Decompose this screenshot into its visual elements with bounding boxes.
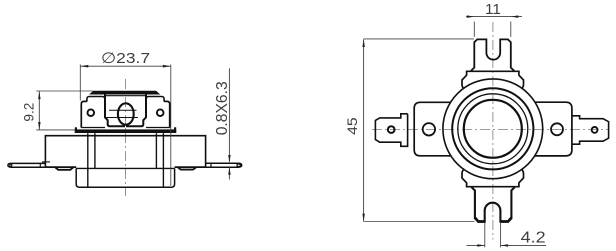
lug left hole [88,109,95,116]
bottom mounting bracket arm [472,187,514,222]
neck wall right inner [155,133,157,168]
left blade hole [388,126,395,133]
svg-text:9.2: 9.2 [22,103,37,122]
extension line right 11 [510,22,512,37]
cap top edge [76,167,174,169]
inner circle (cap face) [464,100,522,158]
extension line right Ø23.7 [170,65,172,186]
dimension line left 4.2 [467,244,485,246]
cap (aluminum cup) [76,168,174,187]
blade left hole [10,164,12,166]
blade right hole [237,164,240,167]
centerline vertical (right view) [492,22,494,240]
arrow right 11 [511,15,519,18]
neck wall left inner [94,133,96,168]
arrow left 11 [467,15,475,18]
body base stub left [75,127,77,133]
boss right [146,97,164,102]
oval cross line upper [109,109,137,111]
extension line top 9.2 [36,90,93,92]
right bracket plate [535,102,572,156]
dimension line 45 [363,39,365,221]
bent tab right under flange [178,167,197,170]
lug right hole [157,109,164,116]
extension line left 4.2 [484,223,486,248]
centerline horizontal (right view) [372,129,609,131]
central block wall right [126,94,146,126]
dimension line right 4.2 [501,244,546,246]
arrow right Ø23.7 [163,65,171,68]
bottom collar [462,169,524,187]
leader line 0.8X6.3 lower [228,168,230,180]
arrow top 45 [362,39,365,47]
blade right crimp tick [210,163,212,167]
extension line bottom 9.2 [36,129,75,131]
svg-text:∅23.7: ∅23.7 [101,50,150,67]
lug left bottom edge [81,127,105,129]
body base band [75,129,176,133]
recess top line [105,95,146,97]
central block wall left [105,94,125,126]
lug right bottom edge [146,127,170,129]
svg-text:4.2: 4.2 [521,230,546,247]
svg-text:11: 11 [485,2,501,18]
svg-text:0.8X6.3: 0.8X6.3 [214,81,231,135]
outer circle (cap flange) [443,79,543,179]
neck wall left outer [87,133,89,187]
arrow left Ø23.7 [80,65,88,68]
top lip band [90,91,159,94]
circle 3 (cap step) [458,94,528,164]
extension line left 11 [473,22,475,37]
top collar [462,71,524,89]
boss left [87,97,105,102]
arrow down 0.8X6.3 [228,155,231,163]
ceramic lug right [164,101,170,127]
extension line left Ø23.7 [79,65,81,101]
dimension line Ø23.7 [80,65,171,67]
centerline (vertical, left view) [125,79,127,196]
circle 2 (cap wall) [452,88,533,169]
dimension line 9.2 [38,91,40,130]
arrow left 4.2 [477,244,485,247]
arrow top 9.2 [38,91,41,99]
right plate rivet hole [551,123,563,135]
terminal blade left [8,163,46,167]
dimension line 11 [466,16,522,18]
blade left crimp tick [39,163,41,167]
body base stub right [174,127,176,133]
arrow bottom 45 [362,214,365,222]
terminal oval [118,103,134,124]
right blade hole [592,127,598,133]
left terminal blade (top view) [375,114,407,147]
flange bottom edge right segment [175,166,206,168]
oval cross line lower [106,117,139,119]
extension line bottom 45 [364,221,475,223]
arrow up 0.8X6.3 [228,167,231,175]
extension line right 4.2 [500,223,502,248]
leader line 0.8X6.3 upper [228,68,230,162]
arrow right 4.2 [501,244,509,247]
svg-text:45: 45 [344,117,360,135]
ceramic lug left [81,101,87,127]
left plate rivet hole [423,123,435,135]
flange plate [45,136,205,167]
bottom arm tip thick edges [475,218,512,222]
top mounting bracket arm [471,39,513,71]
right terminal blade (top view) [572,116,609,144]
neck wall right outer [162,133,164,187]
arrow bottom 9.2 [38,122,41,130]
flange bottom edge left segment [45,166,76,168]
extension line top 45 [364,38,474,40]
blade left bent hook line [42,161,50,163]
left bracket plate [414,102,451,156]
bent tab left under flange [55,167,74,170]
terminal blade right [206,163,242,167]
